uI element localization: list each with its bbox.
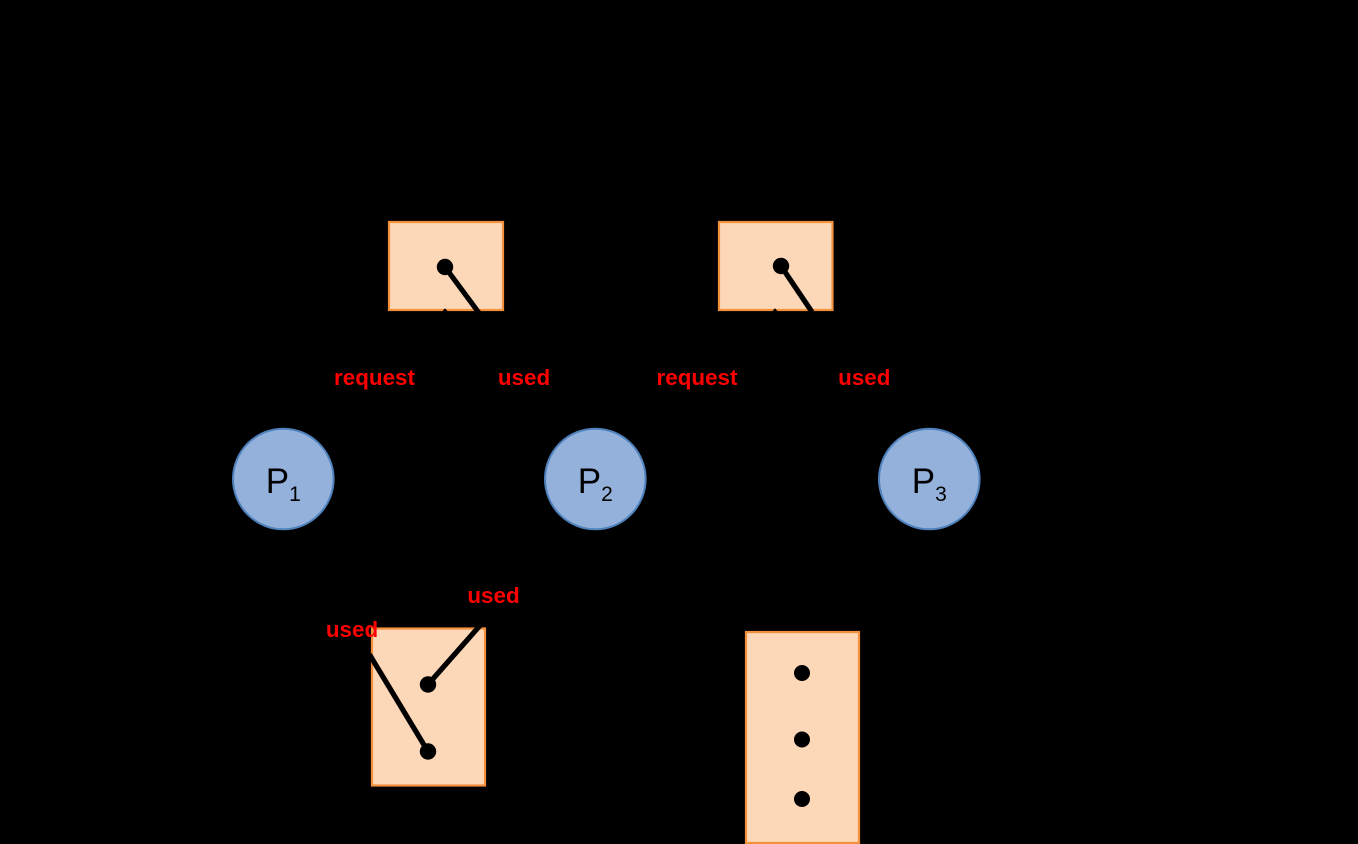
svg-text:used: used xyxy=(326,617,378,642)
label used (R1 to P2) xyxy=(498,365,550,390)
allocation edge from R3 lower instance xyxy=(370,655,429,752)
process P2 xyxy=(545,429,646,530)
resource instance dot in R3 (upper) xyxy=(420,676,436,692)
resource instance dot in R4 (bottom) xyxy=(794,791,810,807)
svg-text:request: request xyxy=(334,365,415,390)
resource instance dot in R3 (lower) xyxy=(420,743,436,759)
allocation edge from R1 instance xyxy=(445,267,479,313)
svg-text:used: used xyxy=(498,365,550,390)
svg-text:request: request xyxy=(657,365,738,390)
label used (left, R3 to P1) xyxy=(326,617,378,642)
svg-text:used: used xyxy=(467,583,519,608)
process P3 xyxy=(879,429,980,530)
label request (P1 to R1) xyxy=(334,365,415,390)
label request (P2 to R2) xyxy=(657,365,738,390)
svg-text:used: used xyxy=(838,365,890,390)
resource box R3 (bottom-left) xyxy=(372,629,485,786)
allocation edge from R3 upper instance xyxy=(428,626,480,685)
resource instance dot in R4 (middle) xyxy=(794,732,810,748)
resource instance dot in R4 (top) xyxy=(794,665,810,681)
request arrowhead tip at R2 bottom edge xyxy=(772,308,779,312)
process P1 xyxy=(233,429,334,530)
label used (upper, R3 to P2) xyxy=(467,583,519,608)
resource box R4 (bottom-right) xyxy=(746,632,859,843)
resource instance dot in R2 xyxy=(773,258,789,274)
resource box R2 (top-right) xyxy=(719,222,833,310)
allocation edge from R2 instance xyxy=(781,266,812,312)
label used (R2 to P3) xyxy=(838,365,890,390)
resource box R1 (top-left) xyxy=(389,222,503,310)
request arrowhead tip at R1 bottom edge xyxy=(442,308,449,312)
resource instance dot in R1 xyxy=(437,259,453,275)
